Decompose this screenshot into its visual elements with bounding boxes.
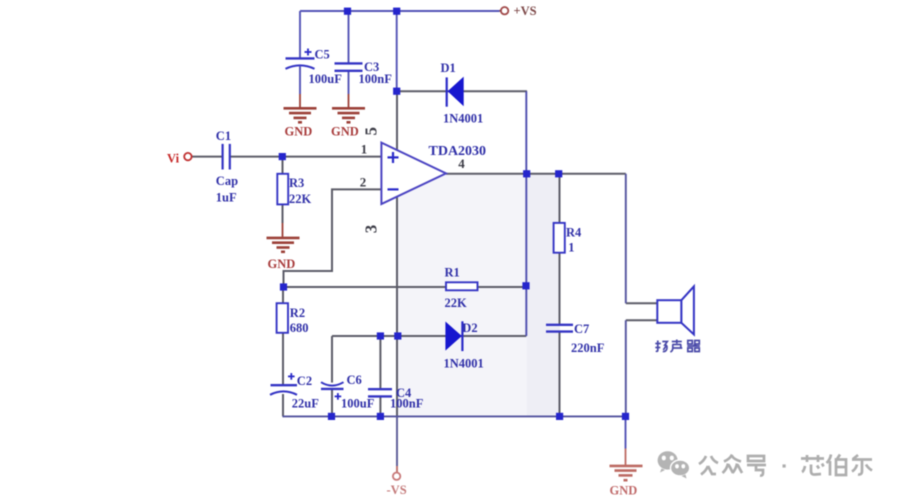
svg-text:5: 5 <box>362 127 381 136</box>
svg-text:GND: GND <box>268 257 296 271</box>
svg-text:TDA2030: TDA2030 <box>429 144 487 159</box>
svg-text:2: 2 <box>360 175 367 190</box>
svg-text:+VS: +VS <box>514 4 537 18</box>
svg-text:R1: R1 <box>445 266 460 280</box>
svg-text:GND: GND <box>610 484 638 498</box>
svg-text:22K: 22K <box>445 296 468 310</box>
svg-text:GND: GND <box>285 125 313 139</box>
svg-text:100nF: 100nF <box>359 72 393 86</box>
svg-text:100uF: 100uF <box>341 397 375 411</box>
svg-text:100uF: 100uF <box>309 72 343 86</box>
svg-text:1: 1 <box>361 142 368 157</box>
svg-text:1: 1 <box>568 241 574 255</box>
svg-text:C6: C6 <box>347 373 362 387</box>
svg-text:C7: C7 <box>574 322 589 336</box>
svg-text:R2: R2 <box>290 306 305 320</box>
svg-text:1uF: 1uF <box>216 191 237 205</box>
svg-text:4: 4 <box>458 156 465 171</box>
svg-text:C1: C1 <box>216 129 231 143</box>
svg-text:C5: C5 <box>315 48 330 62</box>
svg-text:R4: R4 <box>566 226 582 240</box>
svg-text:100nF: 100nF <box>390 397 424 411</box>
svg-text:D2: D2 <box>462 321 477 335</box>
svg-text:R3: R3 <box>289 176 304 190</box>
svg-text:D1: D1 <box>441 61 456 75</box>
svg-text:1N4001: 1N4001 <box>444 357 484 371</box>
svg-text:Cap: Cap <box>216 174 238 188</box>
svg-text:22uF: 22uF <box>292 397 319 411</box>
svg-text:-VS: -VS <box>387 483 407 497</box>
svg-text:Vi: Vi <box>167 152 180 166</box>
svg-text:22K: 22K <box>289 192 312 206</box>
svg-text:GND: GND <box>331 125 359 139</box>
svg-text:C2: C2 <box>297 374 312 388</box>
svg-text:3: 3 <box>362 225 381 234</box>
svg-text:220nF: 220nF <box>571 341 605 355</box>
svg-text:680: 680 <box>290 321 309 335</box>
svg-text:1N4001: 1N4001 <box>443 112 483 126</box>
